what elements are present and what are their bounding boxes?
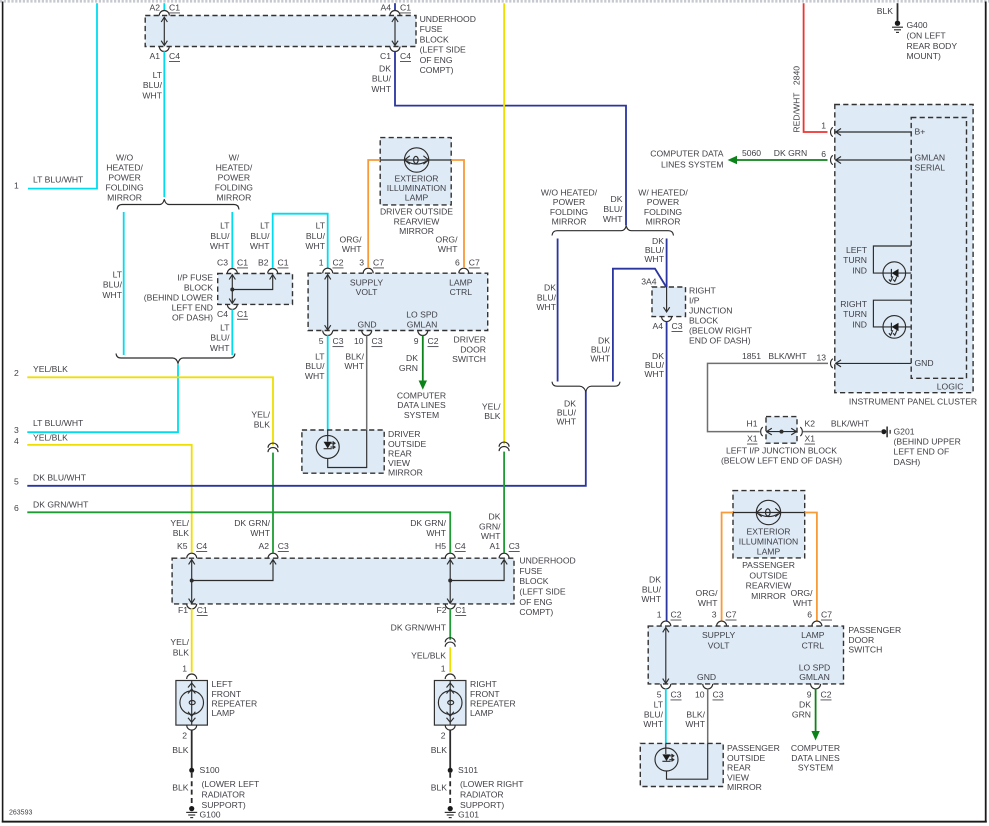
pin 5 C3 labels (passenger) <box>657 690 682 700</box>
svg-text:(BELOW RIGHT: (BELOW RIGHT <box>689 325 753 335</box>
line 6 labels <box>14 500 89 513</box>
svg-text:2: 2 <box>441 731 446 741</box>
svg-text:WHT: WHT <box>305 371 325 381</box>
svg-text:5060: 5060 <box>742 148 761 158</box>
svg-text:BLOCK: BLOCK <box>689 315 718 325</box>
svg-text:YEL/: YEL/ <box>170 518 189 528</box>
wire LT BLU/WHT C4 down to merge brace <box>231 309 233 355</box>
pin A1 C3 labels <box>489 541 519 551</box>
label DK BLU/WHT (above right brace) <box>603 194 623 224</box>
left I/P junction block connectors <box>761 427 803 436</box>
svg-text:COMPUTER: COMPUTER <box>397 390 446 400</box>
logic box <box>911 118 966 379</box>
svg-text:10: 10 <box>695 690 705 700</box>
svg-text:G400: G400 <box>907 20 928 30</box>
svg-text:(LEFT SIDE: (LEFT SIDE <box>519 587 565 597</box>
svg-text:LT BLU/WHT: LT BLU/WHT <box>33 418 84 428</box>
svg-text:C4: C4 <box>217 309 228 319</box>
svg-text:DOOR: DOOR <box>848 635 874 645</box>
right I/P junction block box <box>652 287 686 317</box>
svg-text:HEATED/: HEATED/ <box>106 162 143 172</box>
crossover break x450 <box>445 638 455 647</box>
svg-text:(BELOW LEFT END OF DASH): (BELOW LEFT END OF DASH) <box>721 455 842 465</box>
svg-text:MIRROR: MIRROR <box>552 217 587 227</box>
wire LT BLU/WHT merged to line 3 <box>27 365 178 433</box>
pin K2 X1 labels <box>805 418 816 443</box>
label (LOWER RIGHT RADIATOR SUPPORT) <box>460 779 524 810</box>
svg-text:DK: DK <box>799 700 811 710</box>
svg-text:PASSENGER: PASSENGER <box>727 743 780 753</box>
label LT BLU/WHT (pin5) <box>305 351 325 381</box>
svg-text:GRN/: GRN/ <box>479 521 501 531</box>
svg-text:C1: C1 <box>237 309 248 319</box>
svg-text:UNDERHOOD: UNDERHOOD <box>519 556 575 566</box>
splice S101 <box>448 765 479 775</box>
connector arc A2 <box>159 11 169 16</box>
connector arc pin6 <box>459 268 469 273</box>
svg-text:X1: X1 <box>805 434 816 444</box>
svg-text:PASSENGER: PASSENGER <box>742 560 795 570</box>
pin 6 C7 labels (passenger) <box>807 610 832 620</box>
svg-text:WHT: WHT <box>603 214 623 224</box>
svg-text:BLK: BLK <box>172 783 189 793</box>
svg-text:WHT: WHT <box>643 719 663 729</box>
svg-text:FOLDING: FOLDING <box>644 207 683 217</box>
svg-text:C4: C4 <box>400 51 411 61</box>
svg-text:I/P: I/P <box>689 295 700 305</box>
label BLK (right) <box>431 745 448 755</box>
pin 1 C2 labels <box>319 258 344 268</box>
svg-text:LAMP: LAMP <box>449 277 473 287</box>
label LT BLU/WHT (A1 wire) <box>142 70 162 100</box>
connector arc A1 <box>159 47 169 52</box>
right turn ind label <box>840 299 867 329</box>
pin H5 C4 labels <box>435 541 466 551</box>
label DK BLU/WHT (pin1 passenger wire) <box>641 575 661 605</box>
svg-text:C3: C3 <box>372 336 383 346</box>
connector arc C1 bottom <box>390 47 400 52</box>
svg-text:2840: 2840 <box>792 66 802 85</box>
svg-text:IND: IND <box>852 265 867 275</box>
label PASSENGER OUTSIDE REARVIEW MIRROR <box>742 560 795 601</box>
svg-text:9: 9 <box>807 690 812 700</box>
svg-text:5: 5 <box>657 690 662 700</box>
svg-text:BLU/: BLU/ <box>305 361 325 371</box>
ground G101 <box>445 806 480 819</box>
svg-text:H1: H1 <box>747 418 758 428</box>
svg-text:DK: DK <box>489 512 501 522</box>
exterior illumination lamp (driver) box <box>380 138 451 205</box>
wire BLK left repeater to splice <box>191 730 193 768</box>
fuse block 2 left internal circuit <box>189 559 277 603</box>
svg-text:(LEFT SIDE: (LEFT SIDE <box>420 45 466 55</box>
svg-text:VOLT: VOLT <box>708 640 731 650</box>
svg-text:EXTERIOR: EXTERIOR <box>747 527 791 537</box>
svg-text:LAMP: LAMP <box>801 630 825 640</box>
svg-text:ILLUMINATION: ILLUMINATION <box>739 537 799 547</box>
label DK GRN/WHT (F2) <box>391 623 447 633</box>
wire DK GRN/WHT x504 to A1 <box>503 452 505 553</box>
wire BLK to G400 <box>897 3 899 20</box>
svg-text:POWER: POWER <box>108 172 140 182</box>
svg-text:BLU/: BLU/ <box>103 280 123 290</box>
label YEL/BLK (K5 wire) <box>170 518 189 538</box>
svg-text:DK GRN/: DK GRN/ <box>234 518 270 528</box>
svg-text:WHT: WHT <box>590 353 610 363</box>
pin C1 C4 labels <box>380 51 411 61</box>
svg-text:HEATED/: HEATED/ <box>216 162 253 172</box>
svg-text:BLU/: BLU/ <box>210 333 230 343</box>
svg-text:LT: LT <box>220 221 230 231</box>
wire DK GRN/WHT x273 to A2 <box>272 453 274 553</box>
label DK GRN/WHT (A1 wire) <box>479 512 501 542</box>
svg-text:6: 6 <box>807 610 812 620</box>
svg-text:G101: G101 <box>458 809 479 819</box>
svg-text:G100: G100 <box>200 809 221 819</box>
svg-text:WHT: WHT <box>556 416 576 426</box>
exterior illumination lamp (passenger) label <box>739 527 799 557</box>
svg-text:BLU/: BLU/ <box>306 231 326 241</box>
svg-text:SERIAL: SERIAL <box>915 163 946 173</box>
driver outside rear view mirror box <box>302 430 384 473</box>
passenger switch internal labels <box>697 630 830 682</box>
svg-text:2: 2 <box>14 368 19 378</box>
connector arc A2 (bottom block) <box>268 553 278 558</box>
connector arc pin6 (passenger) <box>812 621 822 626</box>
connector arc pin3 <box>363 268 373 273</box>
svg-text:OF ENG: OF ENG <box>420 55 453 65</box>
underhood fuse block (top) box <box>145 16 416 47</box>
label W/ HEATED/POWER FOLDING MIRROR (right) <box>638 187 688 226</box>
svg-text:REPEATER: REPEATER <box>212 699 258 709</box>
wire BLK right repeater to splice <box>449 730 451 768</box>
pin A2 C1 labels <box>149 3 180 13</box>
label DK BLU/WHT (A4 wire) <box>644 351 664 379</box>
wire YEL/BLK line 4 <box>27 445 191 553</box>
labels 1851 BLK/WHT <box>742 351 807 361</box>
wire DK BLU/WHT w-heated branch to 3A4 <box>666 239 668 288</box>
svg-text:BLU/: BLU/ <box>644 709 664 719</box>
label DK GRN (pin9) <box>399 353 418 373</box>
line 2 labels <box>14 364 68 378</box>
svg-text:LEFT END OF: LEFT END OF <box>894 447 950 457</box>
crossover break x273 <box>268 443 278 452</box>
svg-text:C4: C4 <box>169 51 180 61</box>
svg-text:C3: C3 <box>671 690 682 700</box>
svg-text:LO SPD: LO SPD <box>799 662 831 672</box>
svg-text:C1: C1 <box>278 258 289 268</box>
svg-text:COMPT): COMPT) <box>519 607 553 617</box>
wire YEL/BLK break to right repeater <box>449 647 451 672</box>
svg-text:SUPPLY: SUPPLY <box>350 277 384 287</box>
svg-text:DASH): DASH) <box>894 457 921 467</box>
wire RED/WHT to cluster B+ <box>804 3 828 132</box>
label DK BLU/WHT (C1 wire) <box>371 64 391 94</box>
pin F2 C1 labels <box>436 605 466 615</box>
svg-text:UNDERHOOD: UNDERHOOD <box>420 14 476 24</box>
exterior illumination lamp (passenger) symbol <box>733 500 805 524</box>
svg-text:13: 13 <box>816 352 826 362</box>
wire DK BLU/WHT at pin A4 <box>394 3 396 11</box>
svg-text:OF DASH): OF DASH) <box>172 313 213 323</box>
svg-text:BLK/: BLK/ <box>686 709 705 719</box>
pin 5 C3 labels <box>319 336 344 346</box>
svg-text:BLU/: BLU/ <box>372 74 392 84</box>
svg-text:C1: C1 <box>380 51 391 61</box>
wire YEL/BLK line 2 <box>27 377 273 445</box>
right I/P junction block label <box>689 285 753 345</box>
left front repeater lamp <box>176 681 208 726</box>
label INSTRUMENT PANEL CLUSTER <box>849 396 977 406</box>
svg-text:DK GRN: DK GRN <box>774 148 807 158</box>
svg-text:REAR: REAR <box>388 448 412 458</box>
svg-text:OF ENG: OF ENG <box>519 597 552 607</box>
svg-text:BLU/: BLU/ <box>143 80 163 90</box>
svg-text:BLU/: BLU/ <box>210 231 230 241</box>
I/P fuse block box <box>218 274 293 305</box>
driver mirror photodiode <box>316 430 367 468</box>
svg-text:C3: C3 <box>217 258 228 268</box>
label DK BLU/WHT (tap wire) <box>590 335 610 363</box>
label BLK (left) <box>172 745 189 755</box>
wire DK GRN/WHT line 6 <box>27 512 450 553</box>
svg-text:SYSTEM: SYSTEM <box>798 763 833 773</box>
svg-text:K5: K5 <box>177 541 188 551</box>
pin 6 C7 labels <box>455 258 480 268</box>
right I/P junction block internal arrow <box>664 287 670 312</box>
passenger door switch label <box>848 625 901 654</box>
svg-text:COMPUTER DATA: COMPUTER DATA <box>650 149 723 159</box>
svg-text:IND: IND <box>852 319 867 329</box>
driver mirror label <box>388 429 426 477</box>
svg-text:B2: B2 <box>258 258 269 268</box>
svg-text:LT: LT <box>220 322 230 332</box>
diagram number 263593 <box>9 810 32 817</box>
wire BLK/WHT passenger pin10 to mirror <box>707 689 709 744</box>
svg-text:BLK: BLK <box>172 745 189 755</box>
svg-text:ORG/: ORG/ <box>696 588 719 598</box>
svg-text:SWITCH: SWITCH <box>848 645 882 655</box>
connector arc A4 bottom <box>662 317 672 322</box>
svg-text:WHT: WHT <box>685 719 705 729</box>
wire DK BLU/WHT line 5 <box>27 391 586 486</box>
underhood fuse block label <box>420 14 476 75</box>
left I/P junction block internal circuit <box>766 428 797 435</box>
svg-text:REARVIEW: REARVIEW <box>394 216 441 226</box>
svg-text:POWER: POWER <box>647 197 679 207</box>
GMLAN SERIAL line <box>836 153 946 173</box>
left turn ind LED <box>873 246 911 284</box>
svg-text:DATA LINES: DATA LINES <box>791 753 840 763</box>
svg-text:1: 1 <box>821 121 826 131</box>
pin 13 label (GND) <box>816 352 826 362</box>
pin A4 C1 labels <box>380 3 411 13</box>
svg-text:C4: C4 <box>196 541 207 551</box>
ground G100 <box>186 806 221 819</box>
pin 9 C2 labels (passenger) <box>807 690 832 700</box>
label BLK (left ground) <box>172 783 189 793</box>
label LT BLU/WHT (C3 wire) <box>210 221 230 251</box>
svg-text:C3: C3 <box>672 321 683 331</box>
svg-text:LT: LT <box>315 351 325 361</box>
svg-text:C7: C7 <box>726 610 737 620</box>
svg-text:10: 10 <box>354 336 364 346</box>
svg-text:SYSTEM: SYSTEM <box>404 410 439 420</box>
svg-text:WHT: WHT <box>250 528 270 538</box>
brace split right mirror options <box>552 226 674 236</box>
svg-text:WHT: WHT <box>305 241 325 251</box>
label 3A4 <box>641 277 657 287</box>
fuse element arrow A4-C1 <box>392 17 398 46</box>
left turn ind label <box>843 245 868 275</box>
svg-text:H5: H5 <box>435 541 446 551</box>
svg-text:C2: C2 <box>333 258 344 268</box>
underhood fuse block (bottom) label <box>519 556 575 618</box>
label W/ HEATED/POWER FOLDING MIRROR (left) <box>215 152 254 202</box>
svg-text:2: 2 <box>182 731 187 741</box>
svg-text:DATA LINES: DATA LINES <box>397 400 446 410</box>
wire LT BLU/WHT passenger pin5 to mirror <box>665 689 667 744</box>
svg-text:WHT: WHT <box>210 241 230 251</box>
svg-text:DK BLU/WHT: DK BLU/WHT <box>33 472 87 482</box>
pin 10 C3 labels <box>354 336 383 346</box>
svg-text:BLU/: BLU/ <box>642 584 662 594</box>
connector arc F2 <box>445 604 455 609</box>
svg-text:COMPUTER: COMPUTER <box>791 743 840 753</box>
svg-text:FRONT: FRONT <box>212 689 242 699</box>
svg-text:B+: B+ <box>915 127 926 137</box>
svg-text:FOLDING: FOLDING <box>550 207 589 217</box>
connector arc K5 <box>187 553 197 558</box>
wire ORG/WHT passenger lamp right to pin6 <box>805 513 817 622</box>
svg-text:(LOWER LEFT: (LOWER LEFT <box>202 779 261 789</box>
svg-text:GRN: GRN <box>399 363 418 373</box>
pin A4 C3 labels <box>652 321 682 331</box>
svg-text:LEFT: LEFT <box>212 679 234 689</box>
connector arc F1 <box>187 604 197 609</box>
svg-text:6: 6 <box>455 258 460 268</box>
line 1 labels <box>14 174 84 190</box>
svg-text:WHT: WHT <box>210 343 230 353</box>
svg-text:DK GRN/WHT: DK GRN/WHT <box>33 500 89 510</box>
svg-text:W/ HEATED/: W/ HEATED/ <box>638 187 688 197</box>
connector arc pin5 (passenger) <box>661 684 671 689</box>
label G400 (ON LEFT REAR BODY MOUNT) <box>907 20 958 61</box>
svg-text:3: 3 <box>359 258 364 268</box>
label DK GRN/WHT (H5 wire) <box>410 518 447 538</box>
label BLK/WHT (G201) <box>831 418 870 428</box>
connector arc right repeater bottom <box>445 725 455 730</box>
svg-text:1: 1 <box>319 258 324 268</box>
wire DK BLU/WHT A4 down to passenger switch pin1 <box>666 321 668 621</box>
svg-text:(ON LEFT: (ON LEFT <box>907 31 947 41</box>
svg-text:SUPPLY: SUPPLY <box>702 630 736 640</box>
connector arc pin10 (passenger) <box>703 684 713 689</box>
svg-text:MIRROR: MIRROR <box>216 192 251 202</box>
svg-text:RIGHT: RIGHT <box>470 679 497 689</box>
pin C3 C1 labels <box>217 258 248 268</box>
door switch supply arrow <box>325 274 331 330</box>
svg-text:MIRROR: MIRROR <box>388 468 423 478</box>
svg-text:LT: LT <box>153 70 163 80</box>
svg-text:MOUNT): MOUNT) <box>907 51 942 61</box>
wire ORG/WHT lamp right to pin6 <box>451 160 464 268</box>
left I/P junction block label <box>721 446 842 466</box>
svg-text:W/: W/ <box>229 152 240 162</box>
label YEL/BLK (x273) <box>251 410 270 430</box>
svg-text:BLK: BLK <box>254 420 271 430</box>
svg-text:BLK/: BLK/ <box>345 351 364 361</box>
connector arc A1 (bottom block) <box>499 553 509 558</box>
svg-text:LINES SYSTEM: LINES SYSTEM <box>661 159 724 169</box>
pin B2 C1 labels <box>258 258 289 268</box>
svg-text:C7: C7 <box>821 610 832 620</box>
svg-text:C1: C1 <box>169 3 180 13</box>
svg-text:BLOCK: BLOCK <box>184 282 213 292</box>
svg-text:C1: C1 <box>400 3 411 13</box>
svg-text:WHT: WHT <box>481 531 501 541</box>
label BLK/WHT (pin10) <box>344 351 364 371</box>
svg-text:BLOCK: BLOCK <box>519 576 548 586</box>
svg-text:LAMP: LAMP <box>405 193 429 203</box>
svg-text:BLK: BLK <box>173 528 190 538</box>
svg-text:WHT: WHT <box>644 254 664 264</box>
svg-text:LAMP: LAMP <box>212 708 236 718</box>
svg-text:RADIATOR: RADIATOR <box>202 790 246 800</box>
svg-text:(LOWER RIGHT: (LOWER RIGHT <box>460 779 524 789</box>
wire YEL/BLK from top x504 <box>503 3 505 444</box>
svg-text:CTRL: CTRL <box>450 287 473 297</box>
svg-text:DK: DK <box>649 575 661 585</box>
svg-text:1851: 1851 <box>742 351 761 361</box>
wire LT BLU/WHT w/o-heated branch <box>123 212 125 355</box>
svg-text:YEL/: YEL/ <box>251 410 270 420</box>
svg-text:RIGHT: RIGHT <box>689 285 716 295</box>
svg-text:C3: C3 <box>278 541 289 551</box>
brace merge right mirror options <box>552 382 620 392</box>
svg-text:CTRL: CTRL <box>802 640 825 650</box>
svg-text:LT: LT <box>316 221 326 231</box>
label ORG/WHT (pin3) <box>340 234 363 254</box>
svg-text:DK: DK <box>379 64 391 74</box>
label DK BLU/WHT (w branch) <box>644 236 664 264</box>
wire DK BLU/WHT tap to junction 3A4 <box>613 269 667 382</box>
svg-text:OUTSIDE: OUTSIDE <box>727 753 765 763</box>
wire LT BLU/WHT from A1 down to brace <box>163 51 165 197</box>
pin A2 C3 labels <box>258 541 289 551</box>
passenger mirror label <box>727 743 780 792</box>
svg-text:DK: DK <box>406 353 418 363</box>
svg-text:BLU/: BLU/ <box>537 292 557 302</box>
svg-text:LAMP: LAMP <box>470 708 494 718</box>
svg-text:LEFT I/P JUNCTION BLOCK: LEFT I/P JUNCTION BLOCK <box>726 446 837 456</box>
connector arc pin1 <box>323 268 333 273</box>
door switch internal labels <box>350 277 473 329</box>
right front repeater lamp <box>434 681 466 726</box>
svg-text:3: 3 <box>712 610 717 620</box>
svg-text:RIGHT: RIGHT <box>840 299 867 309</box>
label YEL/BLK (F1) <box>170 637 189 657</box>
pin 10 C3 labels (passenger) <box>695 690 724 700</box>
svg-text:A2: A2 <box>149 3 160 13</box>
svg-text:S101: S101 <box>458 765 478 775</box>
svg-text:VIEW: VIEW <box>388 458 411 468</box>
svg-text:SWITCH: SWITCH <box>452 354 486 364</box>
svg-text:5: 5 <box>319 336 324 346</box>
svg-text:A2: A2 <box>258 541 269 551</box>
svg-text:WHT: WHT <box>102 290 122 300</box>
svg-text:BLK/WHT: BLK/WHT <box>768 351 807 361</box>
